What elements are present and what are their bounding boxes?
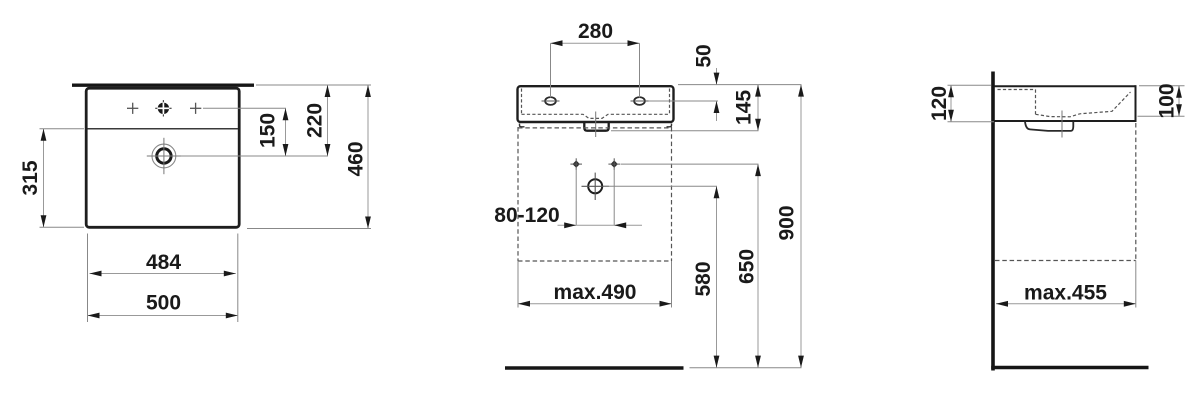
dim 580 (692, 186, 720, 367)
svg-text:484: 484 (146, 251, 181, 274)
svg-text:150: 150 (256, 113, 279, 148)
floor line (thick) (991, 366, 1148, 369)
dim 120: extension lines (948, 85, 995, 122)
80-120 range arrows (558, 224, 643, 226)
leader from drain target to 580 (604, 185, 718, 187)
tap hole left (front) (542, 97, 560, 105)
drain hole (147, 138, 181, 174)
tap-position cross right (190, 103, 201, 114)
furniture zone dashed box (518, 127, 672, 261)
svg-text:max.490: max.490 (554, 281, 637, 304)
dim 650 (735, 164, 761, 368)
bottom extension line (right of basin) (247, 228, 371, 230)
dim 484/500: extension verticals (88, 234, 238, 323)
wall line (back edge, thick) (72, 83, 254, 86)
dim max.490 (518, 303, 672, 305)
svg-text:100: 100 (1155, 83, 1178, 118)
fixing tab left (520, 124, 525, 127)
waste outlet (side) (1025, 122, 1073, 131)
dim 100 (1155, 83, 1182, 118)
dim 145 (732, 85, 761, 131)
deck divider line (88, 128, 239, 130)
svg-text:580: 580 (692, 261, 715, 296)
floor line thin (690, 367, 802, 369)
svg-text:50: 50 (692, 44, 715, 67)
svg-text:220: 220 (303, 103, 326, 138)
basin profile bottom edge (995, 120, 1137, 122)
svg-text:460: 460 (344, 141, 367, 176)
dim max.455 (996, 303, 1136, 305)
basin profile top edge (995, 85, 1136, 87)
tap hole (centre) (155, 100, 171, 116)
hidden bowl bottom (dashed, with dip to waste) (522, 114, 670, 118)
dim 900 (775, 85, 804, 368)
dim 280: dimension line (551, 42, 640, 44)
fixing tab right (667, 124, 672, 127)
supply position marker right (diamond) (608, 158, 620, 170)
dim 220: dimension line (327, 85, 329, 156)
marker drop lines (576, 168, 614, 226)
svg-text:500: 500 (146, 291, 181, 314)
waste bottom extension line (611, 130, 759, 132)
waste outlet (front) (584, 123, 608, 131)
leader from right diamond to 650 (621, 163, 759, 165)
dim 315: extension lines (40, 129, 85, 228)
centre line through waste (595, 112, 597, 138)
svg-text:280: 280 (578, 20, 613, 43)
leader from right tap cross (203, 107, 286, 109)
max.490 extension verticals (518, 261, 672, 308)
svg-text:145: 145 (732, 90, 755, 125)
basin outer rim rect (86, 88, 239, 227)
furniture zone dashed (side) (995, 123, 1136, 261)
dim 100: extension lines (1138, 86, 1185, 117)
wall line (thick vertical) (991, 72, 995, 371)
centre line through waste (side) (1061, 111, 1063, 138)
svg-text:900: 900 (775, 205, 798, 240)
dim 50 (outside arrows) (692, 44, 719, 121)
tap hole right (front) (631, 97, 649, 105)
dim 500: dimension line (88, 315, 238, 317)
hidden bowl profile (dashed) (998, 90, 1131, 117)
top extension line (right of wall) (256, 84, 371, 86)
leader from drain (181, 155, 328, 157)
basin top extension line (678, 84, 802, 86)
drain position target (circle) (582, 173, 609, 200)
dim 460: dimension line (367, 85, 369, 229)
svg-text:max.455: max.455 (1024, 282, 1107, 305)
dim 150: dimension line (285, 108, 287, 156)
svg-text:650: 650 (735, 249, 758, 284)
dim 280: extension lines down to holes (551, 43, 640, 97)
dim 315: dimension line (43, 129, 45, 228)
hidden bowl edge left (dashed) (521, 89, 523, 114)
svg-text:315: 315 (19, 160, 42, 195)
hidden bowl edge right (dashed) (669, 89, 671, 114)
leader from right tap hole (649, 100, 719, 102)
basin body front (518, 86, 674, 122)
svg-text:80-120: 80-120 (494, 204, 559, 227)
tap-position cross left (127, 103, 138, 114)
svg-text:120: 120 (928, 86, 951, 121)
basin profile front edge (1135, 85, 1137, 121)
floor line thick (505, 366, 684, 369)
dim 484: dimension line (90, 273, 236, 275)
max.455 extension vertical (1135, 261, 1137, 308)
supply position marker left (diamond) (570, 158, 582, 170)
dim 120 (928, 85, 954, 122)
